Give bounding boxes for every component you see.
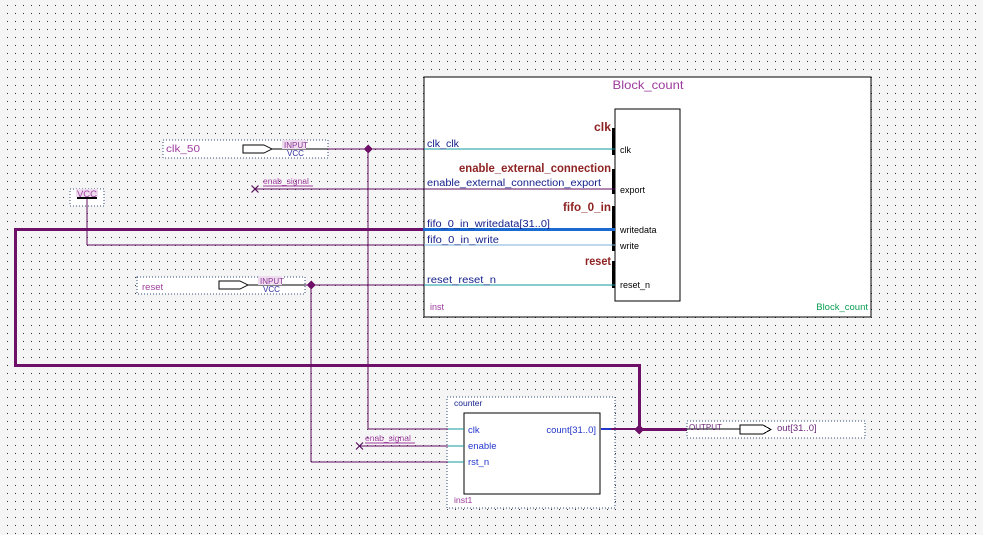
svg-text:fifo_0_in_writedata[31..0]: fifo_0_in_writedata[31..0]	[427, 219, 550, 230]
wire vcc to write net vertical	[86, 199, 88, 245]
bus fifo_0_in_writedata inside block (blue)	[423, 228, 615, 231]
wire reset horizontal to counter	[311, 461, 448, 463]
svg-text:OUTPUT: OUTPUT	[689, 423, 722, 432]
svg-text:reset: reset	[142, 282, 163, 293]
svg-text:VCC: VCC	[263, 285, 280, 294]
wire fifo_0_in_write inside block (light blue)	[424, 244, 615, 246]
wire clk_50 net: pin to junction	[328, 148, 368, 150]
node label enab_signal top underline	[263, 185, 313, 187]
svg-text:clk_clk: clk_clk	[427, 139, 460, 150]
counter block selection box	[447, 397, 615, 508]
pin clk_50 stub line	[272, 148, 328, 150]
pin clk_50 selection box	[163, 140, 328, 158]
vcc symbol V1 highlight	[76, 189, 98, 197]
interface bar clk	[612, 128, 615, 155]
svg-text:rst_n: rst_n	[468, 457, 489, 468]
pin clk_50 input symbol	[243, 145, 272, 153]
vcc symbol V1 selection box	[70, 189, 104, 206]
bus left vertical	[14, 228, 17, 367]
svg-text:clk: clk	[620, 145, 631, 155]
junction reset net	[307, 281, 316, 290]
junction clk net	[364, 145, 373, 154]
svg-text:count[31..0]: count[31..0]	[546, 425, 596, 436]
svg-text:enable: enable	[468, 441, 497, 452]
wire enab_signal to export port	[255, 188, 615, 190]
pin reset INPUT highlight	[258, 276, 282, 285]
svg-text:clk: clk	[468, 425, 480, 436]
pin reset selection box	[137, 277, 305, 294]
svg-text:inst1: inst1	[454, 495, 473, 505]
svg-text:enab_signal: enab_signal	[263, 176, 309, 186]
pin out output symbol	[740, 425, 771, 434]
svg-text:write: write	[619, 241, 639, 251]
pin reset input symbol	[219, 281, 248, 289]
vcc symbol V1 bar	[77, 197, 97, 199]
node label enab_signal bottom underline	[365, 442, 415, 444]
interface bar reset	[612, 261, 615, 288]
bus count to junction (purple)	[611, 428, 638, 430]
svg-text:fifo_0_in_write: fifo_0_in_write	[427, 235, 499, 246]
pin reset stub line	[248, 284, 305, 286]
wire reset vertical down to counter	[310, 285, 312, 462]
bus count[31..0] stub from counter (blue)	[601, 428, 611, 430]
block U1 inner symbol box	[615, 109, 680, 301]
wire clk vertical down to counter	[367, 149, 369, 429]
wire counter clk stub (teal)	[448, 428, 464, 430]
svg-text:enab_signal: enab_signal	[365, 433, 411, 443]
bus out to OUTPUT pin	[638, 428, 687, 431]
x marker enab_signal bottom	[356, 443, 363, 450]
interface bar fifo_0_in	[612, 206, 615, 251]
wire clk_clk inside block (teal)	[424, 148, 615, 150]
svg-text:fifo_0_in: fifo_0_in	[563, 202, 611, 214]
svg-text:clk: clk	[594, 122, 612, 134]
wire reset net: pin to junction to block	[305, 284, 424, 286]
svg-text:reset_reset_n: reset_reset_n	[427, 275, 496, 286]
svg-text:reset: reset	[585, 256, 611, 268]
svg-text:Block_count: Block_count	[816, 302, 868, 313]
block U1 Block_count outer body	[424, 77, 871, 317]
svg-text:out[31..0]: out[31..0]	[777, 423, 817, 434]
svg-text:inst: inst	[430, 302, 445, 312]
svg-text:VCC: VCC	[287, 149, 304, 158]
wire counter rst_n stub (teal)	[448, 461, 464, 463]
pin out stub line	[687, 428, 740, 430]
svg-text:export: export	[620, 185, 646, 195]
junction out bus	[634, 425, 644, 435]
wire clk horizontal to counter	[368, 428, 448, 430]
svg-text:writedata: writedata	[619, 225, 657, 235]
wire clk_50 net: junction to block edge	[368, 148, 424, 150]
svg-text:counter: counter	[454, 398, 483, 408]
svg-text:Block_count: Block_count	[613, 78, 685, 92]
pin out[31..0] selection box	[687, 421, 865, 438]
bus fifo_0_in_writedata horizontal (purple, outside)	[14, 228, 423, 231]
interface bar enable_external_connection	[612, 169, 615, 194]
svg-text:enable_external_connection_exp: enable_external_connection_export	[427, 178, 601, 189]
pin clk_50 INPUT highlight	[282, 140, 306, 149]
bus bottom horizontal	[14, 364, 641, 367]
svg-text:clk_50: clk_50	[166, 144, 201, 155]
wire reset_reset_n inside block (teal)	[424, 284, 615, 286]
wire counter enable stub (teal)	[448, 445, 464, 447]
wire fifo_0_in_write horizontal (purple outside)	[87, 244, 424, 246]
svg-text:enable_external_connection: enable_external_connection	[459, 163, 611, 175]
svg-text:reset_n: reset_n	[620, 280, 650, 290]
counter block body	[464, 413, 600, 494]
wire enab_signal bottom to counter enable	[360, 445, 448, 447]
bus right vertical	[638, 364, 641, 431]
x marker enab_signal top	[252, 186, 259, 193]
